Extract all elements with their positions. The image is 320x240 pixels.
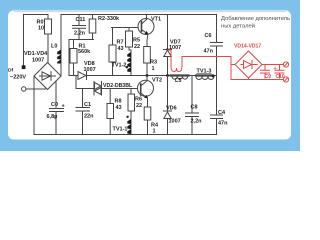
resistor R5 xyxy=(128,28,130,32)
wire: AC input left vertical xyxy=(23,15,25,66)
transistor VT1 xyxy=(138,19,154,35)
winding TV1-2 xyxy=(130,50,132,76)
fuse connector square xyxy=(22,65,26,69)
wire: tap line y39 xyxy=(69,40,94,76)
svg-text:43: 43 xyxy=(118,46,124,52)
svg-text:Добавление дополнитель: Добавление дополнитель xyxy=(221,16,290,22)
svg-text:VT2: VT2 xyxy=(152,78,162,84)
svg-text:22n: 22n xyxy=(84,114,94,120)
resistor R8 xyxy=(109,89,111,104)
svg-text:TV1-2: TV1-2 xyxy=(112,63,127,69)
svg-text:VD1-VD4: VD1-VD4 xyxy=(24,51,48,57)
resistor R6 xyxy=(130,89,132,95)
diode VD8 xyxy=(78,72,86,80)
resistor R2 xyxy=(92,15,94,20)
labels black xyxy=(8,16,228,135)
svg-text:VD2-DB3BL: VD2-DB3BL xyxy=(103,83,133,89)
svg-text:R7: R7 xyxy=(117,40,124,46)
svg-text:TV1-3: TV1-3 xyxy=(197,69,212,75)
svg-text:L5: L5 xyxy=(175,78,181,84)
svg-text:560k: 560k xyxy=(78,49,91,55)
diode VD7 with vertical line from rail xyxy=(167,15,169,50)
inductor L5 xyxy=(171,74,189,76)
winding TV1-3 xyxy=(196,74,213,76)
svg-text:~220V: ~220V xyxy=(10,75,26,81)
svg-text:1007: 1007 xyxy=(169,45,181,51)
resistor R7 xyxy=(112,28,114,46)
wire: mid node line y75 xyxy=(69,75,217,77)
svg-text:1007: 1007 xyxy=(169,119,181,125)
soft inner shadow line below top border xyxy=(14,11,286,13)
capacitor C9 xyxy=(261,65,270,79)
svg-text:47n: 47n xyxy=(218,121,228,127)
svg-text:C0: C0 xyxy=(51,102,58,108)
svg-text:R8: R8 xyxy=(115,99,122,105)
capacitor C0 xyxy=(50,81,64,135)
svg-text:ных деталей: ных деталей xyxy=(221,22,255,29)
svg-text:C4: C4 xyxy=(218,110,226,116)
capacitor C10 xyxy=(275,65,284,79)
svg-text:C11: C11 xyxy=(76,17,86,23)
transistor VT2 xyxy=(138,80,154,96)
output terminal 1 xyxy=(283,62,288,67)
wire: bridge right vertex up (DC+) xyxy=(60,62,62,76)
red wire from VD7 with dip to L5 node xyxy=(168,50,232,72)
svg-text:43: 43 xyxy=(116,105,122,111)
winding TV1-1 xyxy=(130,117,132,135)
red added wiring xyxy=(168,50,289,82)
wire: VT1 base line xyxy=(112,27,142,29)
svg-text:1: 1 xyxy=(152,66,155,72)
svg-text:C1: C1 xyxy=(84,102,91,108)
svg-text:1007: 1007 xyxy=(84,67,96,73)
junction dot VD7/L5 xyxy=(166,74,169,77)
svg-text:+: + xyxy=(274,66,277,72)
svg-text:C10: C10 xyxy=(276,74,285,80)
wire: corner down to diac line xyxy=(76,76,94,89)
svg-text:TV1-1: TV1-1 xyxy=(113,127,128,133)
svg-text:R6: R6 xyxy=(135,97,142,103)
resistor R0 xyxy=(47,15,49,20)
red bottom rail xyxy=(231,79,284,81)
resistor R1 xyxy=(73,40,75,49)
svg-text:R2-330k: R2-330k xyxy=(98,16,120,22)
svg-text:10: 10 xyxy=(38,26,44,32)
svg-text:47n: 47n xyxy=(204,49,214,55)
svg-text:C8: C8 xyxy=(191,105,198,111)
svg-text:+: + xyxy=(62,104,65,110)
svg-text:VD14-VD17: VD14-VD17 xyxy=(234,44,261,50)
resistor R3 xyxy=(144,47,151,64)
right vertical with C6 and C4 xyxy=(211,15,223,135)
capacitor C1 xyxy=(76,89,90,135)
red vertical to bridge xyxy=(230,57,232,80)
capacitor C8 xyxy=(186,76,199,135)
svg-text:22: 22 xyxy=(136,103,142,109)
junction dot R3/VT2 xyxy=(146,74,149,77)
red top output rail xyxy=(262,64,284,66)
input terminal circle xyxy=(22,87,26,91)
svg-text:VT1: VT1 xyxy=(151,17,161,23)
svg-text:C6: C6 xyxy=(205,33,212,39)
svg-text:R5: R5 xyxy=(133,38,140,44)
wire: diac line to VT2 base xyxy=(102,88,142,90)
wire: bridge left vertex down to bottom rail xyxy=(33,76,35,135)
svg-text:6,8µ: 6,8µ xyxy=(47,114,58,120)
wire: bottom rail xyxy=(34,134,217,136)
blue border frame xyxy=(0,0,300,151)
inductor L0 xyxy=(60,44,62,62)
svg-text:22: 22 xyxy=(134,44,140,50)
junction dot VD7 red tap xyxy=(166,48,168,50)
svg-text:L0: L0 xyxy=(51,44,57,50)
svg-text:Df: Df xyxy=(8,68,13,74)
red bridge VD14-VD17 xyxy=(235,51,262,78)
red labels xyxy=(234,44,285,80)
capacitor C11 xyxy=(73,15,86,40)
svg-text:1: 1 xyxy=(153,129,156,135)
svg-text:1007: 1007 xyxy=(32,58,44,64)
output terminal 2 xyxy=(283,77,288,82)
resistor R4 xyxy=(144,107,151,120)
wire: top-left rail to R0 xyxy=(24,14,49,16)
svg-text:VD6: VD6 xyxy=(166,106,177,112)
svg-text:R3: R3 xyxy=(150,60,157,66)
bridge rectifier VD1-VD4 xyxy=(34,63,61,90)
diode VD6 xyxy=(167,76,169,112)
wire: top DC rail xyxy=(61,14,217,16)
svg-text:C9: C9 xyxy=(265,74,272,80)
diac VD2 xyxy=(93,82,95,96)
svg-text:2,2n: 2,2n xyxy=(74,30,86,36)
svg-text:2,2n: 2,2n xyxy=(191,119,203,125)
header text xyxy=(221,16,290,30)
wire: terminal to bridge xyxy=(27,88,46,90)
